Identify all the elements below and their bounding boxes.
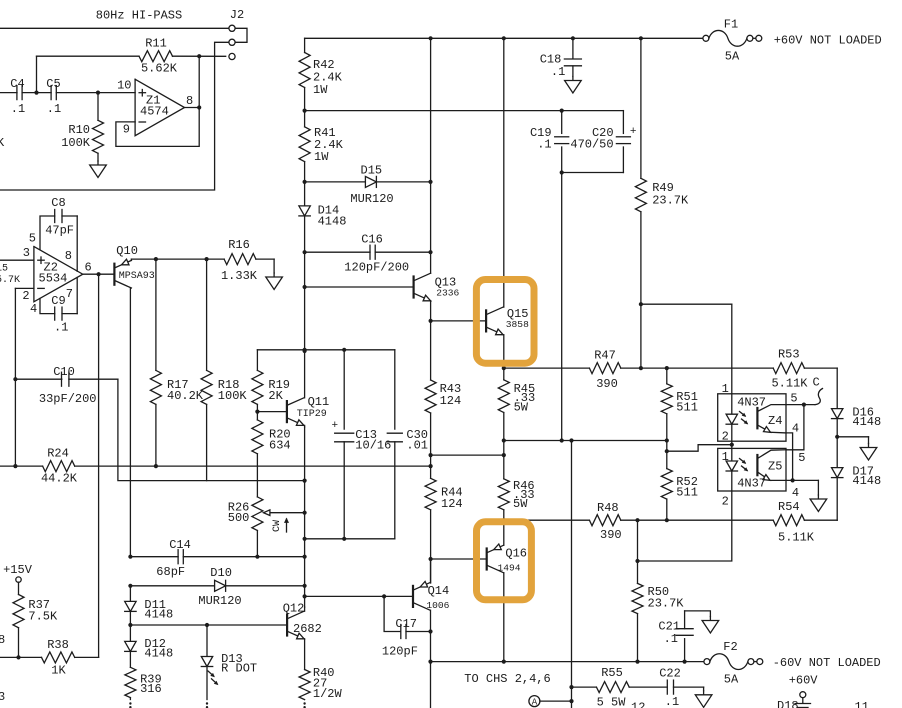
wire Z4 pin4 down (786, 433, 793, 481)
svg-text:1.33K: 1.33K (221, 269, 258, 283)
svg-text:C16: C16 (361, 233, 383, 247)
transistor Q15 (431, 307, 529, 335)
svg-text:124: 124 (440, 394, 462, 408)
wire Z1 feedback loop (116, 108, 199, 147)
svg-text:40.2K: 40.2K (167, 389, 204, 403)
opto Z5 LED (726, 445, 737, 491)
svg-text:R11: R11 (145, 37, 167, 51)
wire R51-R52 step to opto (665, 441, 732, 454)
svg-text:7.5K: 7.5K (28, 610, 58, 624)
op-amp Z1 (117, 79, 193, 137)
wire C10 to feedback line (118, 379, 305, 480)
svg-text:MUR120: MUR120 (198, 594, 241, 608)
svg-text:44.2K: 44.2K (41, 472, 78, 486)
label partial 3 (0, 690, 5, 704)
svg-text:5: 5 (790, 392, 797, 406)
label +60V NOT LOADED (774, 34, 882, 48)
svg-text:F1: F1 (724, 18, 738, 32)
svg-text:C22: C22 (659, 667, 681, 681)
svg-text:5.62K: 5.62K (141, 62, 178, 76)
svg-text:R DOT: R DOT (221, 662, 257, 676)
svg-text:.1: .1 (665, 695, 679, 708)
transistor Q10 (114, 244, 154, 288)
opto-coupler U-Z5 box (718, 448, 786, 491)
capacitor C19 (530, 111, 569, 175)
wire Q13 collector up (430, 38, 432, 273)
svg-text:12: 12 (631, 701, 645, 708)
fuse F2 (704, 640, 763, 687)
svg-text:R48: R48 (597, 501, 619, 515)
wire bus middle (303, 287, 307, 353)
svg-text:Z4: Z4 (768, 414, 782, 428)
resistor R43 (425, 321, 461, 478)
svg-text:TIP29: TIP29 (297, 409, 327, 420)
resistor R24 (0, 447, 431, 486)
svg-text:2K: 2K (268, 389, 283, 403)
svg-text:R47: R47 (594, 349, 616, 363)
label partial 15 / 5.7K (0, 264, 20, 287)
svg-text:.1: .1 (537, 138, 551, 152)
wire Z1 output (185, 105, 202, 109)
resistor R54 (667, 500, 837, 545)
svg-text:R24: R24 (47, 447, 69, 461)
resistor R41 (299, 126, 344, 206)
svg-text:4148: 4148 (852, 474, 881, 488)
opto Z4 phototransistor (757, 405, 786, 433)
wire C5 to op-amp (56, 91, 135, 95)
wire Z2 +input (0, 259, 34, 261)
wire D13 continuation marks (206, 702, 208, 708)
ground C18 (565, 77, 582, 94)
diode D13 LED (201, 625, 257, 700)
svg-text:D18: D18 (777, 699, 799, 708)
svg-text:C8: C8 (51, 196, 65, 210)
svg-text:5: 5 (798, 451, 805, 465)
opto Z4 labels (722, 382, 800, 444)
wire Q12 collector up (304, 607, 306, 611)
svg-text:4N37: 4N37 (737, 477, 766, 491)
wire node line y440 (504, 438, 669, 442)
svg-text:R16: R16 (228, 238, 250, 252)
capacitor C22 (659, 667, 703, 708)
capacitor C8 (40, 196, 77, 271)
svg-text:CW: CW (272, 520, 283, 532)
wire C19 bus down (561, 173, 563, 441)
capacitor C9 (40, 278, 77, 335)
ground Z5 emitter (810, 495, 827, 512)
diode D15 (305, 164, 433, 207)
wire input line (0, 92, 17, 94)
svg-text:2: 2 (22, 289, 29, 303)
node D16-D17 (835, 435, 839, 439)
svg-text:3: 3 (23, 246, 30, 260)
resistor R48 (504, 501, 667, 542)
svg-text:10/16: 10/16 (355, 439, 391, 453)
opto Z5 phototransistor (757, 450, 786, 481)
svg-text:5 5W: 5 5W (597, 696, 627, 708)
node Z4-Z5 LED junction (730, 443, 734, 447)
svg-text:100K: 100K (61, 136, 91, 150)
svg-text:4148: 4148 (318, 215, 347, 229)
wire Q10 emitter line (131, 257, 224, 261)
capacitor C21 (658, 611, 710, 662)
svg-text:6: 6 (85, 260, 92, 274)
wire Q15 emitter down (502, 335, 506, 371)
capacitor C10 (15, 365, 118, 406)
node R17 bottom (154, 464, 158, 468)
diode D11 (125, 586, 174, 627)
svg-text:C5: C5 (46, 77, 60, 91)
svg-text:+: + (630, 126, 637, 138)
svg-text:316: 316 (140, 682, 162, 696)
ground C22 (695, 691, 712, 708)
wire bias bottom node (305, 537, 395, 541)
svg-text:5W: 5W (514, 401, 529, 415)
wire Q13 emitter down (429, 301, 433, 323)
resistor R10 (61, 93, 103, 161)
svg-text:5534: 5534 (39, 272, 68, 286)
resistor R53 (667, 348, 837, 391)
svg-text:9: 9 (123, 123, 130, 137)
svg-text:5.11K: 5.11K (771, 377, 808, 391)
wire R39 continuation marks (129, 702, 131, 708)
wire bias top node (257, 348, 394, 352)
diode D10 (128, 566, 304, 608)
svg-text:TO CHS 2,4,6: TO CHS 2,4,6 (464, 672, 550, 686)
transistor Q13 (305, 273, 460, 301)
svg-text:2: 2 (722, 430, 729, 444)
svg-text:D10: D10 (210, 566, 232, 580)
wire Z2 output (83, 272, 115, 276)
resistor R47 (504, 349, 667, 392)
capacitor C30 (387, 350, 428, 539)
wire D16 ground branch (837, 437, 868, 444)
capacitor C18 (540, 38, 582, 79)
svg-text:23.7K: 23.7K (648, 597, 685, 611)
wire C4-C5 (22, 56, 51, 94)
svg-text:11: 11 (855, 700, 869, 708)
D13 LED arrows (208, 671, 218, 685)
svg-text:634: 634 (269, 439, 291, 453)
transistor Q11 (257, 395, 329, 425)
label partial K (0, 136, 5, 150)
svg-text:1: 1 (722, 382, 729, 396)
svg-text:47pF: 47pF (45, 224, 74, 238)
opto Z4 LED arrows (740, 412, 749, 425)
wire rail R42 to C19/C20 (305, 109, 624, 113)
resistor R52 (661, 451, 698, 522)
svg-text:+60V: +60V (789, 674, 819, 688)
wire opto feed (641, 304, 732, 394)
wire bus lower (303, 427, 307, 607)
svg-text:4148: 4148 (144, 647, 173, 661)
diode D18 partial (777, 698, 811, 708)
svg-text:C14: C14 (169, 538, 191, 552)
off-page connector C (813, 376, 823, 405)
svg-text:2: 2 (722, 495, 729, 509)
svg-text:4: 4 (30, 302, 37, 316)
svg-text:1006: 1006 (426, 600, 449, 611)
ground R10 (90, 161, 107, 178)
capacitor C16 (303, 233, 433, 275)
svg-text:1W: 1W (314, 150, 329, 164)
op-amp Z2 (22, 232, 91, 316)
svg-text:5W: 5W (513, 497, 528, 511)
svg-text:1: 1 (722, 450, 729, 464)
svg-text:R38: R38 (47, 638, 69, 652)
svg-text:1494: 1494 (498, 563, 521, 574)
svg-text:R53: R53 (778, 348, 800, 362)
wire Q11 collector to top node (304, 351, 306, 398)
svg-text:3858: 3858 (506, 319, 529, 330)
resistor R44 (425, 478, 463, 583)
svg-text:124: 124 (441, 497, 463, 511)
wire Z5 LED cathode return (638, 491, 732, 561)
label -60V NOT LOADED (773, 656, 881, 670)
label 80Hz HI-PASS (96, 9, 182, 23)
resistor R40 (299, 666, 342, 701)
svg-text:MPSA93: MPSA93 (119, 271, 155, 282)
wire Q15 collector up (503, 38, 505, 307)
svg-text:390: 390 (600, 528, 622, 542)
capacitor C5 (46, 77, 61, 116)
svg-text:68pF: 68pF (156, 565, 185, 579)
svg-text:100K: 100K (218, 389, 248, 403)
svg-text:C4: C4 (10, 77, 24, 91)
svg-text:C9: C9 (51, 294, 65, 308)
wire Z4 pin5 to Z5 pin5 (786, 405, 804, 450)
off-page connector A (529, 696, 572, 708)
resistor R11 (37, 37, 226, 76)
ground R16 (266, 273, 283, 290)
svg-text:5: 5 (29, 232, 36, 246)
resistor R18 (201, 259, 247, 481)
resistor R39 (125, 667, 162, 699)
ground C21 (702, 617, 719, 634)
wire Q11 emitter to bus (304, 425, 306, 427)
resistor R50 (632, 520, 684, 661)
diode D14 (299, 204, 347, 288)
svg-text:5A: 5A (725, 50, 740, 64)
power +60V terminal (789, 674, 819, 698)
svg-text:23.7K: 23.7K (652, 194, 689, 208)
svg-text:2682: 2682 (293, 622, 322, 636)
svg-text:R55: R55 (601, 666, 623, 680)
wire Z4 pin5 to C connector (786, 403, 815, 407)
svg-text:4148: 4148 (144, 608, 173, 622)
opto Z5 LED arrows (740, 459, 749, 472)
resistor R49 (635, 38, 689, 370)
svg-text:7: 7 (66, 287, 73, 301)
svg-text:.1: .1 (11, 102, 25, 116)
svg-text:8: 8 (0, 633, 5, 647)
svg-text:F2: F2 (723, 640, 737, 654)
svg-text:Q16: Q16 (505, 547, 527, 561)
node R51 top (665, 366, 669, 370)
resistor R38 (0, 638, 99, 678)
wire J2 pin1-pin2 bracket (235, 28, 247, 42)
svg-text:8: 8 (65, 249, 72, 263)
svg-text:1W: 1W (313, 83, 328, 97)
highlight box Q16 (477, 522, 532, 600)
svg-text:Q14: Q14 (428, 584, 450, 598)
svg-text:4148: 4148 (852, 415, 881, 429)
wire Q16 emitter up (503, 520, 505, 545)
svg-text:.1: .1 (664, 632, 678, 646)
transistor Q16 (431, 544, 527, 574)
resistor R45 (498, 368, 535, 479)
ground D16-D17 node (860, 444, 877, 461)
label TO CHS 2,4,6 (464, 672, 550, 686)
svg-text:Q11: Q11 (308, 395, 330, 409)
svg-text:15: 15 (0, 264, 8, 275)
capacitor C17 (382, 596, 431, 658)
highlight box Q15 (476, 280, 534, 364)
resistor R51 (661, 368, 698, 440)
svg-text:Q12: Q12 (283, 602, 305, 616)
wire R40 continuation marks (303, 702, 305, 708)
wire Q10 collector bus (129, 289, 131, 557)
wire Z2 -input to feedback column (13, 288, 34, 466)
svg-text:D15: D15 (361, 164, 383, 178)
wire Q12 emitter down (304, 639, 306, 670)
svg-text:390: 390 (596, 377, 618, 391)
label partial 11 (855, 700, 869, 708)
diode D16 (832, 368, 882, 437)
svg-text:.1: .1 (54, 321, 68, 335)
svg-text:1/2W: 1/2W (313, 687, 343, 701)
capacitor C14 (128, 538, 304, 579)
svg-text:80Hz HI-PASS: 80Hz HI-PASS (96, 9, 182, 23)
svg-text:120pF/200: 120pF/200 (344, 261, 409, 275)
svg-text:Q10: Q10 (116, 244, 138, 258)
svg-text:4N37: 4N37 (737, 396, 766, 410)
node R11 right junction (197, 54, 201, 58)
resistor R46 (498, 479, 534, 523)
resistor R17 (150, 259, 203, 466)
resistor R19 (252, 350, 290, 412)
wire Z2 output bus down to R38 (98, 274, 100, 657)
svg-text:2336: 2336 (436, 288, 459, 299)
svg-text:Z5: Z5 (768, 460, 782, 474)
potentiometer R26 (228, 497, 263, 557)
label partial 8 (0, 633, 5, 647)
svg-text:511: 511 (676, 401, 698, 415)
node Q11 base (255, 410, 259, 414)
label CW and arrow (272, 518, 289, 533)
R26 wiper arrow (264, 510, 305, 516)
wire node link (431, 453, 506, 457)
svg-text:R10: R10 (68, 123, 90, 137)
node Q13 base (303, 285, 307, 289)
svg-text:C: C (813, 376, 820, 390)
wire J2 pin2 return to left edge (0, 42, 229, 190)
svg-text:.01: .01 (406, 439, 428, 453)
capacitor C13 (332, 350, 392, 539)
power +15V (3, 563, 33, 582)
svg-text:511: 511 (676, 486, 698, 500)
resistor R42 (299, 53, 343, 127)
svg-text:120pF: 120pF (382, 645, 418, 659)
svg-text:5.7K: 5.7K (0, 275, 20, 286)
capacitor C20 (562, 111, 637, 173)
capacitor C4 (10, 77, 25, 116)
wire negative rail (431, 660, 704, 664)
svg-text:1K: 1K (51, 664, 66, 678)
svg-text:5.11K: 5.11K (778, 531, 815, 545)
svg-text:8: 8 (186, 94, 193, 108)
transistor Q14 (305, 581, 450, 611)
wire Q14 collector down (428, 610, 432, 708)
svg-text:MUR120: MUR120 (350, 192, 393, 206)
diode D12 (125, 625, 174, 667)
svg-text:R54: R54 (778, 500, 800, 514)
svg-text:470/50: 470/50 (570, 138, 613, 152)
opto Z4 LED (726, 394, 737, 445)
connector J2 pins (229, 25, 235, 59)
svg-text:C10: C10 (53, 365, 75, 379)
node D15 left (303, 180, 307, 184)
svg-text:+: + (332, 420, 339, 432)
opto Z5 labels (722, 450, 806, 509)
svg-text:-60V NOT LOADED: -60V NOT LOADED (773, 656, 881, 670)
svg-text:4574: 4574 (140, 105, 169, 119)
svg-text:.1: .1 (47, 102, 61, 116)
wire top rail (305, 36, 703, 40)
resistor R37 (13, 582, 58, 657)
wire top input to J2 pin1 (0, 27, 229, 29)
wire R11 to Z1 output (198, 56, 200, 107)
fuse F1 (703, 18, 762, 64)
transistor Q12 (130, 602, 321, 639)
svg-text:500: 500 (228, 511, 250, 525)
svg-text:10: 10 (117, 79, 131, 93)
wire Q14 emitter up (430, 559, 432, 583)
opto-coupler U-Z4 box (718, 394, 786, 441)
label partial 12 (631, 701, 645, 708)
resistor R55 (572, 666, 668, 708)
svg-text:J2: J2 (230, 8, 244, 22)
svg-text:A: A (532, 698, 538, 708)
svg-text:33pF/200: 33pF/200 (39, 392, 97, 406)
connector J2 label (230, 8, 244, 22)
svg-text:C17: C17 (395, 617, 417, 631)
wire Q16 collector down (502, 573, 506, 664)
svg-text:.1: .1 (551, 65, 565, 79)
wire main bus top corner (304, 38, 306, 52)
svg-text:3: 3 (0, 690, 5, 704)
diode D17 (832, 437, 882, 520)
svg-text:5A: 5A (724, 673, 739, 687)
resistor R20 (252, 412, 291, 497)
wire Z5 pin4 to ground (786, 478, 818, 495)
svg-text:+15V: +15V (3, 563, 33, 577)
svg-text:+60V NOT LOADED: +60V NOT LOADED (774, 34, 882, 48)
wire mid vertical to R55 (569, 441, 573, 708)
node R42-R41 (303, 109, 307, 113)
resistor R16 (221, 238, 274, 283)
svg-text:4: 4 (792, 486, 799, 500)
